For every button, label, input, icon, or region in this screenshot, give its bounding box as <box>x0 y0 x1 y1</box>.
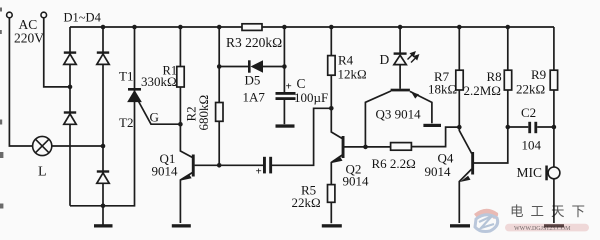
ground Q1 emitter <box>172 224 191 227</box>
resistor R5 <box>328 185 335 203</box>
wire R2 branch top <box>218 27 220 103</box>
svg-text:9014: 9014 <box>152 164 179 179</box>
node rail-R2 <box>217 25 222 30</box>
node A R7 Q4 collector <box>457 125 462 130</box>
svg-text:9014: 9014 <box>425 164 452 179</box>
arrow Q2 emitter <box>332 157 343 163</box>
wire R7 branch top <box>458 27 460 70</box>
svg-text:R6 2.2Ω: R6 2.2Ω <box>372 156 416 171</box>
diode D5 <box>249 60 263 72</box>
svg-text:WWW.DGJS123.COM: WWW.DGJS123.COM <box>514 226 571 232</box>
ground MIC bottom <box>544 224 564 227</box>
node C R9 C2 MIC <box>552 125 557 130</box>
LED light arrows <box>408 52 419 62</box>
svg-text:1A7: 1A7 <box>243 90 266 105</box>
svg-text:D1~D4: D1~D4 <box>64 11 102 25</box>
node D5-R2 <box>217 64 222 69</box>
svg-text:D: D <box>380 52 390 67</box>
node rail-bridge <box>101 25 106 30</box>
ground bridge bottom <box>94 224 113 227</box>
diode D1 bridge left top <box>64 53 76 65</box>
wire R2 bottom to Q1 base node <box>218 121 220 165</box>
wire Q2 base <box>344 146 365 148</box>
microphone MIC <box>545 166 560 181</box>
terminal AC input 1 <box>7 12 13 18</box>
wire Q2 emitter to R5 <box>331 155 342 185</box>
wire R4 branch top <box>330 27 332 56</box>
arrow Q1 emitter <box>181 174 192 180</box>
svg-text:104: 104 <box>522 138 542 153</box>
resistor R8 <box>504 70 511 90</box>
svg-text:L: L <box>38 165 47 180</box>
wire R4 bottom <box>330 75 332 108</box>
transistor Q3 PNP <box>391 89 410 92</box>
svg-text:T2: T2 <box>119 115 133 130</box>
svg-text:R9: R9 <box>531 67 546 82</box>
svg-text:680kΩ: 680kΩ <box>196 95 211 131</box>
svg-text:T1: T1 <box>119 69 133 84</box>
svg-text:100µF: 100µF <box>294 90 328 105</box>
wire lamp to bridge right midpoint <box>52 145 103 147</box>
node rail-LED <box>398 25 403 30</box>
svg-text:22kΩ: 22kΩ <box>516 82 545 97</box>
resistor R6 <box>391 143 412 151</box>
svg-text:D5: D5 <box>245 73 261 88</box>
thyristor T1 T2 <box>128 89 141 101</box>
svg-text:G: G <box>150 110 159 125</box>
wire bridge ground stub <box>102 206 104 225</box>
wire R7 bottom to node A <box>458 90 460 127</box>
transistor Q4 <box>471 152 474 175</box>
wire Q1 base to coupling cap <box>195 164 263 166</box>
svg-text:22kΩ: 22kΩ <box>292 195 321 210</box>
node Q1 base R2 <box>217 163 222 168</box>
wire R9 bottom to node C <box>553 90 555 127</box>
wire AC terminal 2 to bridge left midpoint <box>44 18 70 87</box>
node R4 bottom Q2 collector <box>329 106 334 111</box>
edge artifacts <box>0 8 3 209</box>
wire right bridge branch <box>102 27 104 206</box>
resistor R7 <box>456 70 463 90</box>
svg-text:330kΩ: 330kΩ <box>141 74 177 89</box>
wire thyristor gate G <box>138 100 181 125</box>
node bridge right mid <box>101 144 106 149</box>
wire R5 bottom to ground <box>330 202 332 223</box>
node B R8 Q4 base C2 <box>506 125 511 130</box>
arrow Q4 emitter <box>460 176 471 182</box>
transistor Q2 <box>342 136 345 158</box>
resistor R1 <box>177 67 184 88</box>
node bridge left mid <box>68 85 73 90</box>
arrow Q3 emitter <box>411 92 419 98</box>
svg-text:220V: 220V <box>14 31 44 46</box>
svg-text:+: + <box>286 81 292 93</box>
svg-text:R8: R8 <box>487 69 502 84</box>
wire C2 to node C <box>537 126 554 128</box>
wire LED to Q3 base bar <box>399 64 401 88</box>
wire left bridge branch <box>69 27 71 206</box>
diode D3 bridge left bottom <box>64 113 76 125</box>
resistor R2 <box>216 103 223 122</box>
wire D5 right <box>263 66 284 68</box>
wire coupling cap to Q2 collector node <box>272 108 331 165</box>
svg-text:电工天下: 电工天下 <box>510 204 592 219</box>
wire C branch top <box>283 27 285 92</box>
node rail-R4 <box>329 25 334 30</box>
ground C bottom <box>276 124 295 127</box>
svg-text:18kΩ: 18kΩ <box>428 82 457 97</box>
node rail-R7 <box>457 25 462 30</box>
svg-text:R4: R4 <box>338 53 354 68</box>
resistor R4 <box>328 56 335 76</box>
resistor R9 <box>550 70 557 90</box>
wire top rail left segment <box>70 26 242 28</box>
wire R6 to Q4 collector node <box>411 127 459 147</box>
wire R8 branch top <box>507 27 509 70</box>
terminal AC input 2 <box>41 12 47 18</box>
node Q2 base <box>363 145 368 150</box>
wire R9 branch from rail corner <box>553 27 555 70</box>
capacitor C electrolytic <box>276 92 296 100</box>
wire Q4 emitter to ground <box>459 169 471 223</box>
wire Q1 emitter to ground <box>180 173 192 224</box>
wire node C to MIC <box>553 127 555 167</box>
wire R1 bottom to Q1 collector <box>180 87 192 158</box>
ground Q3 emitter <box>423 124 441 127</box>
svg-text:12kΩ: 12kΩ <box>338 67 367 82</box>
wire D5 left <box>219 66 248 68</box>
wire Q3 collector to Q2 base node <box>365 91 391 147</box>
ground R5 bottom <box>322 224 342 227</box>
svg-text:Q3 9014: Q3 9014 <box>376 107 422 122</box>
wire Q2 base node to R6 <box>366 146 391 148</box>
wire R8 bottom to node B <box>507 90 509 127</box>
resistor R3 <box>242 24 262 31</box>
wire Q4 base to node B <box>474 127 508 163</box>
LED D <box>394 54 407 65</box>
wire Q4 collector <box>459 127 471 153</box>
svg-text:C: C <box>297 76 306 91</box>
wire R1 branch top <box>179 27 181 67</box>
wire bridge bottom to thyristor cathode <box>70 27 135 206</box>
capacitor C2 <box>528 122 537 133</box>
svg-text:+: + <box>256 166 262 178</box>
svg-text:MIC: MIC <box>517 165 543 180</box>
node rail-R8 <box>506 25 511 30</box>
svg-text:R3 220kΩ: R3 220kΩ <box>226 35 282 50</box>
node rail-R1 <box>178 25 183 30</box>
svg-text:C2: C2 <box>521 105 536 120</box>
svg-text:2.2MΩ: 2.2MΩ <box>464 83 501 98</box>
node G R1 bottom <box>178 122 183 127</box>
watermark logo <box>474 209 498 232</box>
node rail-thyristor <box>132 25 137 30</box>
ground Q4 emitter <box>450 224 470 227</box>
wire AC terminal 1 to lamp <box>9 18 32 146</box>
node rail-C <box>282 25 287 30</box>
wire top rail right segment <box>262 26 554 28</box>
node D5-C <box>282 64 287 69</box>
watermark banner <box>505 224 589 232</box>
capacitor C1 coupling electrolytic <box>263 157 272 174</box>
wire Q3 emitter to ground <box>410 91 432 123</box>
svg-text:9014: 9014 <box>343 174 370 189</box>
wire node B to C2 <box>508 126 529 128</box>
lamp L <box>33 136 52 155</box>
wire C bottom to ground <box>283 100 285 124</box>
wire MIC to ground <box>553 179 555 223</box>
transistor Q1 <box>192 155 195 177</box>
node bridge bottom <box>101 204 106 209</box>
diode D4 bridge right bottom <box>97 172 109 184</box>
wire Q3 base branch from rail <box>399 27 401 53</box>
wire Q2 collector <box>331 108 342 138</box>
diode D2 bridge right top <box>97 53 109 65</box>
